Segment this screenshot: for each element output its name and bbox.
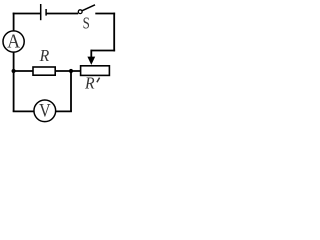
rheostat R' box <box>81 66 110 76</box>
node A junction dot <box>12 69 16 73</box>
wire: R to R' <box>56 70 81 72</box>
svg-text:R: R <box>84 74 95 93</box>
rheostat wiper arrowhead <box>87 57 95 65</box>
battery long plate <box>40 4 42 20</box>
wire: horizontal to wiper <box>91 50 115 52</box>
battery short plate <box>45 9 47 16</box>
wire: middle run, node to R <box>14 70 33 72</box>
resistor R box <box>33 67 55 75</box>
svg-text:S: S <box>83 14 90 33</box>
svg-text:R: R <box>39 46 50 65</box>
switch S pivot circle <box>78 10 82 14</box>
voltmeter V circle <box>34 100 56 122</box>
wire: battery to switch <box>46 13 78 15</box>
wire: top run from left corner to battery <box>13 13 40 15</box>
wire: left vertical <box>13 13 15 112</box>
wire: switch to top-right corner <box>95 13 115 15</box>
rheostat wiper stem <box>90 50 92 58</box>
background <box>0 0 120 126</box>
svg-text:A: A <box>7 31 20 53</box>
wire: bottom run <box>13 110 72 112</box>
svg-text:V: V <box>39 101 51 122</box>
wire: drop from node B to bottom <box>70 70 72 112</box>
node B junction dot <box>69 69 73 73</box>
switch S blade (open) <box>82 5 95 11</box>
wire: right vertical <box>113 13 115 52</box>
ammeter A circle <box>3 31 24 52</box>
